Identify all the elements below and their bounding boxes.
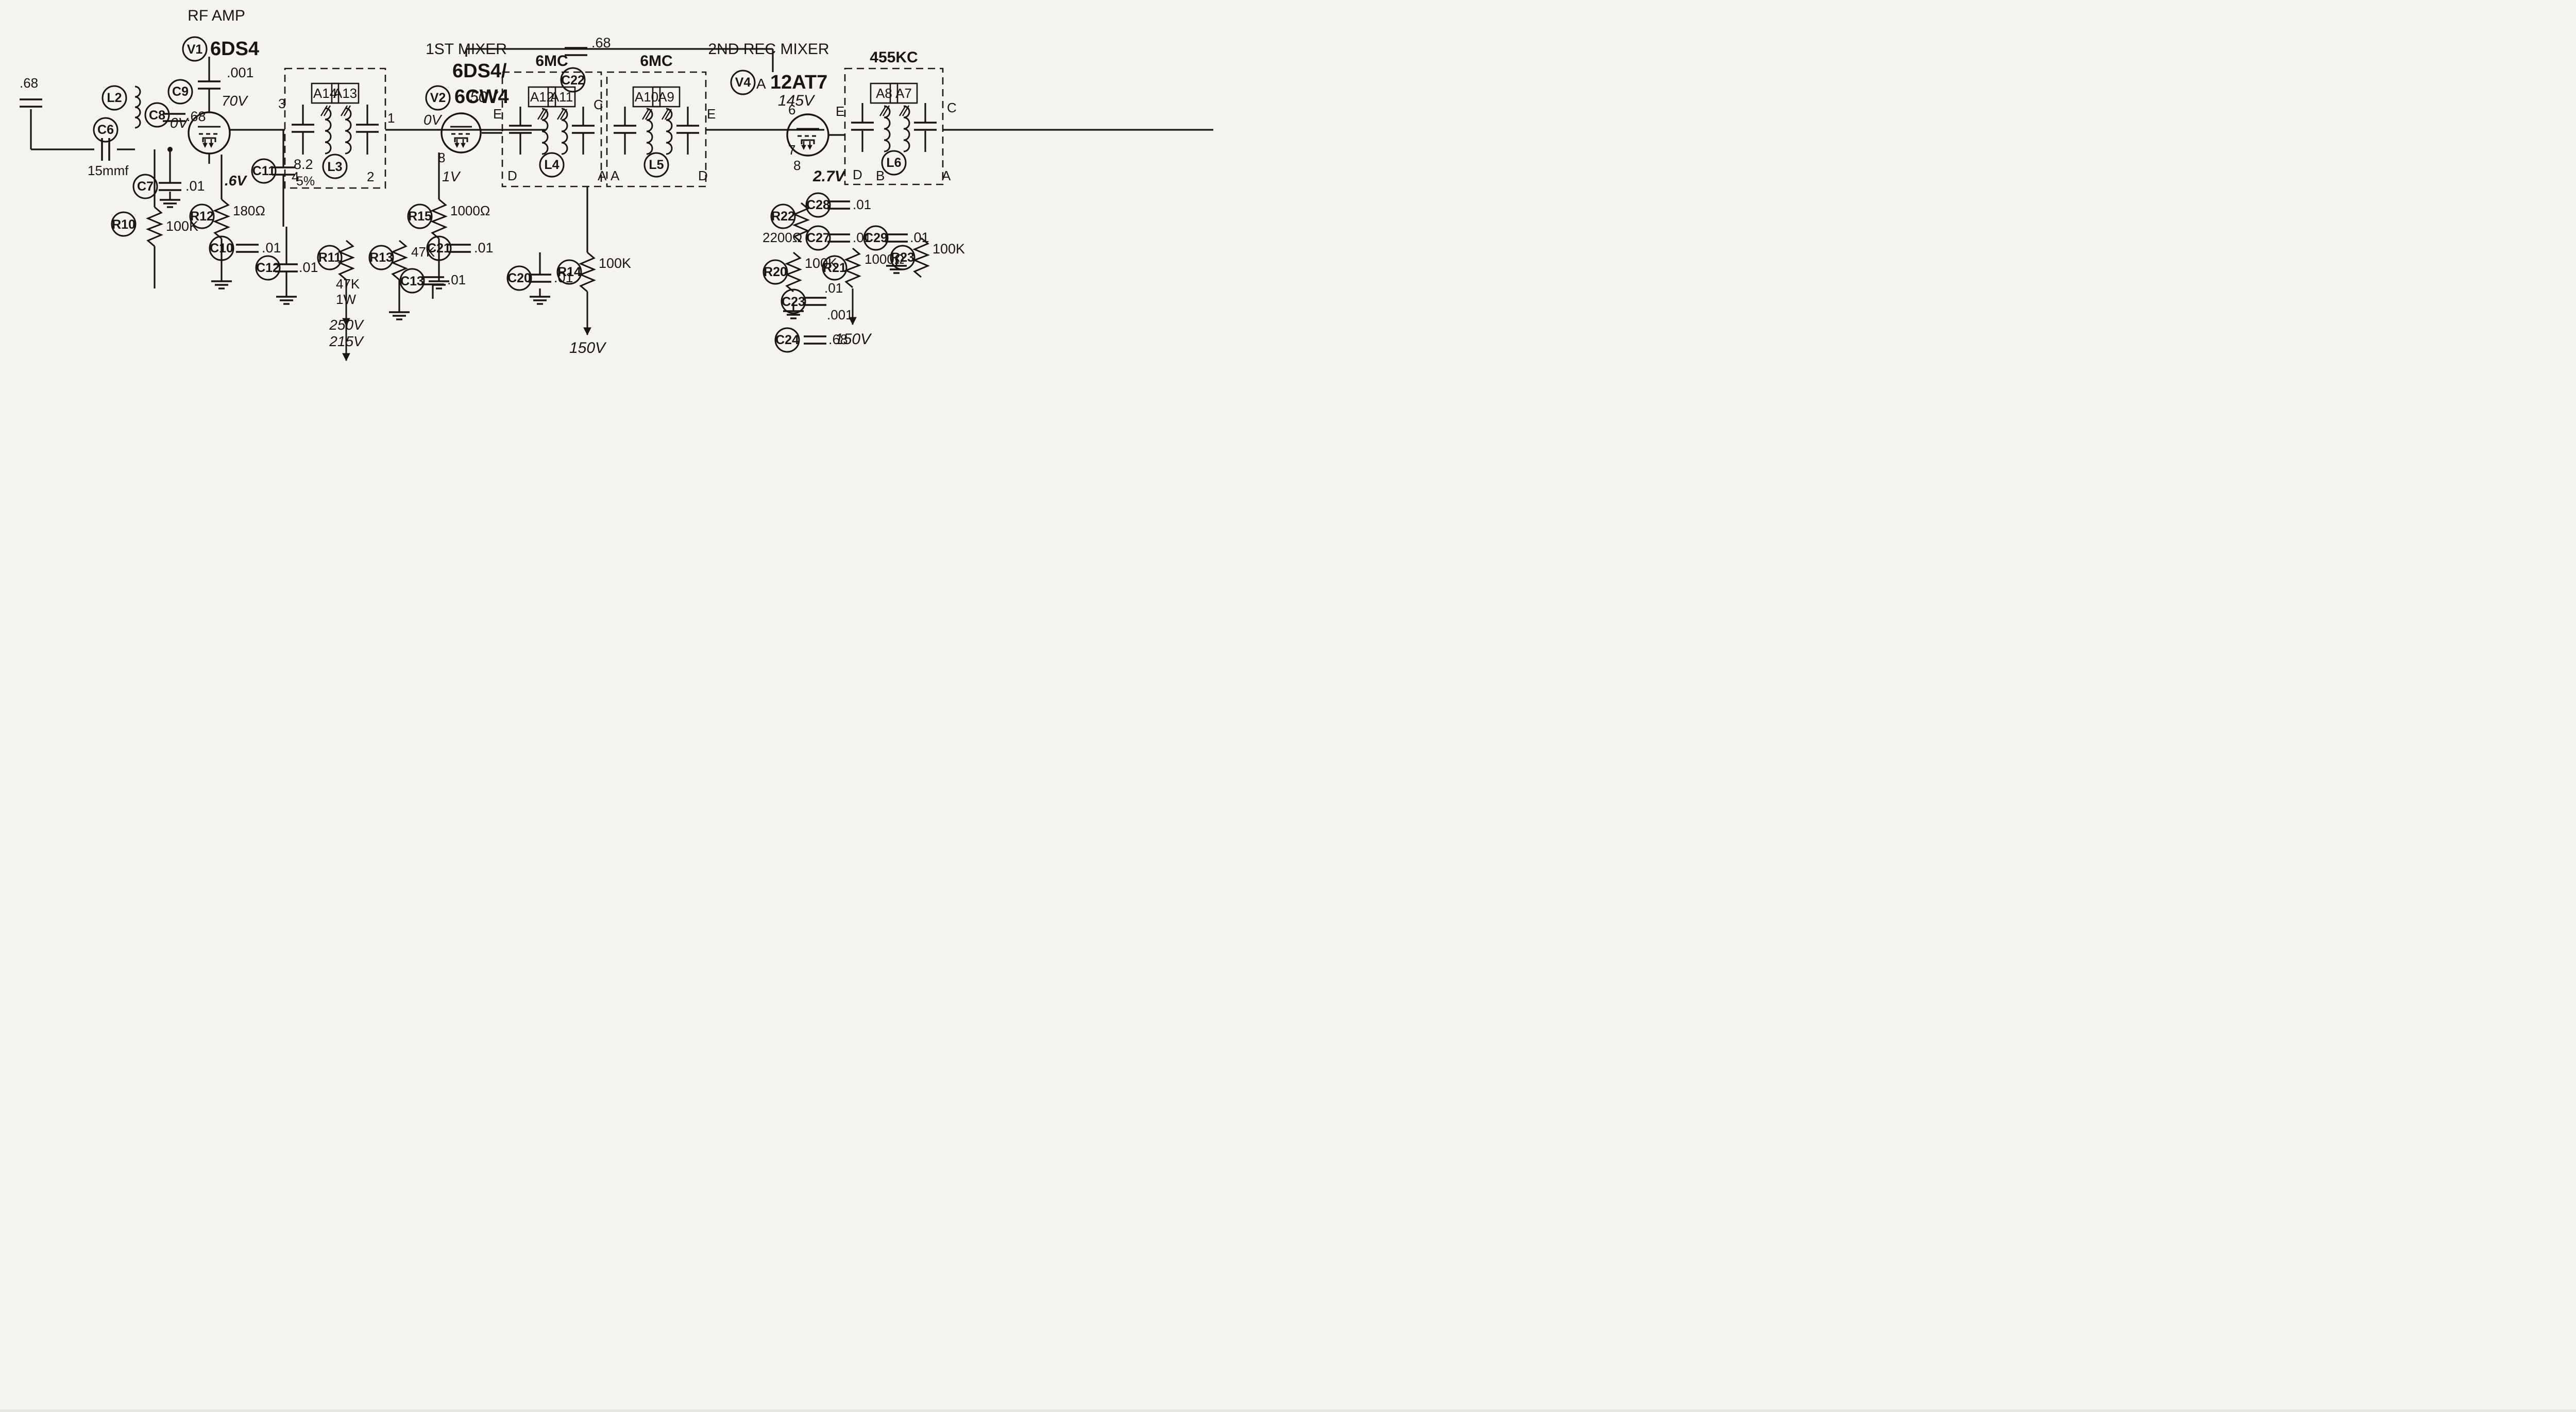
svg-text:.01: .01: [185, 178, 205, 194]
svg-text:6DS4: 6DS4: [210, 38, 259, 60]
svg-text:.68: .68: [20, 75, 38, 91]
svg-text:250V: 250V: [329, 317, 364, 333]
svg-text:2.7V: 2.7V: [812, 168, 846, 185]
svg-text:C28: C28: [806, 198, 830, 212]
svg-text:15mmf: 15mmf: [88, 163, 129, 178]
svg-text:3: 3: [278, 96, 285, 111]
svg-text:L4: L4: [544, 158, 559, 172]
svg-text:A: A: [756, 76, 766, 92]
svg-text:E: E: [493, 106, 502, 122]
svg-text:0V: 0V: [423, 112, 443, 128]
svg-text:C7: C7: [137, 179, 154, 194]
svg-text:6MC: 6MC: [640, 53, 672, 70]
svg-text:6DS4/: 6DS4/: [452, 60, 507, 82]
svg-text:E: E: [707, 106, 716, 122]
svg-text:R14: R14: [557, 265, 581, 279]
svg-text:2: 2: [367, 169, 374, 184]
svg-text:.01: .01: [262, 240, 281, 256]
svg-text:R20: R20: [764, 265, 787, 279]
svg-text:R10: R10: [112, 217, 135, 232]
svg-text:C12: C12: [256, 261, 280, 275]
svg-text:6: 6: [788, 102, 795, 117]
svg-text:R21: R21: [823, 261, 846, 275]
svg-text:6MC: 6MC: [535, 53, 568, 70]
svg-text:C20: C20: [507, 271, 531, 285]
svg-text:.01: .01: [299, 260, 318, 275]
svg-text:180Ω: 180Ω: [233, 203, 265, 218]
svg-text:V2: V2: [430, 91, 446, 105]
svg-text:145V: 145V: [778, 92, 816, 109]
svg-text:L3: L3: [327, 160, 342, 174]
svg-text:.6V: .6V: [225, 173, 247, 189]
svg-text:R23: R23: [891, 250, 914, 265]
svg-text:2200Ω: 2200Ω: [762, 230, 802, 245]
svg-text:8: 8: [793, 158, 801, 173]
svg-text:100K: 100K: [933, 241, 965, 257]
svg-text:R15: R15: [408, 209, 432, 224]
svg-text:1V: 1V: [442, 168, 461, 184]
svg-text:C29: C29: [864, 231, 888, 245]
svg-text:RF AMP: RF AMP: [188, 7, 245, 24]
svg-text:2ND REC MIXER: 2ND REC MIXER: [708, 41, 829, 58]
svg-text:150V: 150V: [835, 331, 872, 348]
svg-text:E: E: [836, 104, 844, 119]
svg-text:.68: .68: [187, 109, 206, 124]
svg-text:150V: 150V: [569, 339, 607, 356]
svg-text:R12: R12: [190, 209, 214, 224]
svg-text:R22: R22: [771, 209, 795, 224]
svg-text:A7: A7: [895, 86, 912, 101]
svg-text:C6: C6: [97, 123, 114, 137]
svg-text:L6: L6: [886, 156, 901, 170]
svg-text:A10: A10: [635, 89, 658, 105]
svg-text:.01: .01: [474, 240, 494, 256]
svg-text:215V: 215V: [329, 333, 364, 349]
svg-text:C13: C13: [400, 274, 424, 288]
svg-text:12AT7: 12AT7: [770, 72, 827, 93]
svg-text:A: A: [942, 168, 951, 183]
svg-text:C27: C27: [806, 231, 830, 245]
svg-text:C11: C11: [252, 164, 276, 178]
svg-text:100K: 100K: [599, 256, 631, 271]
svg-text:A13: A13: [333, 86, 357, 101]
svg-text:4: 4: [292, 169, 299, 184]
svg-text:50V: 50V: [470, 89, 499, 106]
svg-text:1000Ω: 1000Ω: [450, 203, 490, 218]
svg-text:.001: .001: [227, 65, 254, 80]
svg-text:V1: V1: [187, 42, 203, 57]
svg-text:R13: R13: [369, 250, 393, 265]
svg-text:C: C: [947, 100, 957, 115]
svg-text:455KC: 455KC: [870, 49, 918, 66]
svg-text:V4: V4: [735, 75, 751, 90]
svg-text:1: 1: [387, 110, 395, 126]
svg-text:A: A: [598, 168, 607, 183]
svg-text:L2: L2: [107, 91, 122, 105]
svg-text:70V: 70V: [222, 93, 248, 109]
svg-text:D: D: [507, 168, 517, 183]
svg-text:D: D: [698, 168, 708, 183]
svg-text:C: C: [594, 97, 603, 112]
svg-text:.01: .01: [824, 280, 843, 296]
svg-text:C22: C22: [561, 73, 585, 88]
svg-text:D: D: [853, 167, 862, 182]
svg-text:A9: A9: [658, 89, 674, 105]
svg-text:.01: .01: [853, 197, 871, 212]
svg-text:.01: .01: [447, 272, 466, 287]
svg-text:7: 7: [788, 142, 795, 158]
svg-text:.001: .001: [827, 307, 853, 322]
svg-text:47K: 47K: [336, 276, 360, 292]
svg-text:C9: C9: [172, 84, 189, 99]
svg-text:B: B: [876, 168, 885, 183]
svg-text:C24: C24: [775, 333, 799, 347]
svg-text:.01: .01: [910, 230, 929, 245]
svg-text:L5: L5: [649, 158, 664, 172]
svg-text:A: A: [611, 168, 620, 183]
